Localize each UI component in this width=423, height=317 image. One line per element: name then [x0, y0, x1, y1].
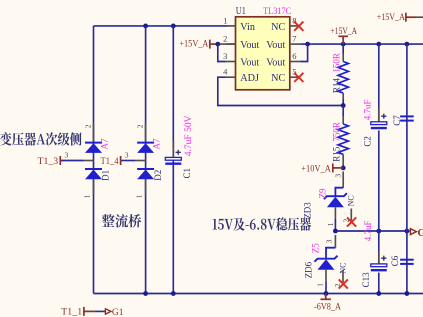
svg-text:3: 3	[325, 239, 334, 243]
wire C1 vertical	[172, 26, 174, 294]
svg-text:Vout: Vout	[240, 57, 259, 68]
value 150R	[331, 53, 341, 73]
svg-text:3: 3	[223, 51, 227, 61]
wire C13 top	[378, 231, 380, 264]
zener ZD3 cathode jog	[335, 188, 343, 197]
power port +10V_A bar	[332, 163, 334, 172]
wire pin7 to +15V rail	[300, 43, 308, 45]
pin name NC U1	[271, 22, 285, 33]
junction dot R14 top	[341, 42, 346, 47]
pin 1 stub U1 left	[226, 25, 236, 27]
capacitor C1 top pin stub	[172, 141, 174, 157]
designator U1	[236, 6, 246, 17]
svg-text:C7: C7	[392, 115, 402, 126]
diode D1 pin 1 number	[83, 194, 92, 198]
pin stub branch2 mid pin3	[136, 160, 146, 162]
pin 4 stub U1 left	[226, 76, 236, 78]
diode D1 upper value A7	[100, 138, 110, 149]
diode D2 lower anode pin stub	[145, 179, 147, 194]
wire C2 bottom	[378, 131, 380, 232]
junction dot C1 bottom	[171, 291, 176, 296]
annotation rectifier bridge	[102, 214, 141, 228]
designator ZD3	[302, 202, 312, 219]
zener ZD6 NC pin	[342, 271, 344, 283]
svg-text:C6: C6	[390, 255, 400, 266]
no-connect X ZD6 pin2	[339, 279, 348, 288]
pin number 5 U1	[292, 67, 296, 77]
junction dot C13 bottom	[376, 291, 381, 296]
svg-text:T1_4: T1_4	[101, 157, 119, 167]
diode D2 upper value A7	[152, 138, 162, 149]
wire pin2 node to pin3	[218, 44, 226, 61]
pin name Vout U1	[266, 57, 285, 68]
power port -6V8_A stub	[325, 294, 327, 300]
pin name Vout U1	[240, 40, 259, 51]
pin name ADJ U1	[240, 73, 259, 84]
port T1_1 bar	[83, 307, 85, 316]
zener ZD6 symbol	[315, 256, 338, 270]
pin 6 stub U1 right	[290, 61, 300, 63]
svg-text:1: 1	[315, 283, 324, 287]
net label -6V8_A	[314, 302, 341, 312]
svg-text:3: 3	[334, 174, 343, 178]
svg-text:4: 4	[223, 67, 228, 77]
svg-text:4.7uF: 4.7uF	[362, 99, 372, 120]
wire C7	[406, 44, 408, 231]
value 4.7uF of C2	[362, 99, 372, 120]
wire +10V_A port	[333, 167, 343, 169]
zener ZD3 NC label	[346, 195, 355, 206]
zener ZD3 cathode pin	[342, 172, 344, 188]
svg-text:ZD6: ZD6	[304, 261, 314, 278]
pin name Vout U1	[240, 57, 259, 68]
wire ZD6 anode to bottom rail	[325, 282, 327, 294]
svg-text:1: 1	[326, 222, 335, 226]
diode D1 upper (A7) pin2 stub	[93, 124, 95, 143]
svg-text:Z5: Z5	[310, 243, 320, 253]
svg-text:3: 3	[125, 151, 129, 160]
pin number 1 U1	[223, 15, 227, 25]
capacitor C7 plates	[400, 116, 414, 120]
resistor R15 pin bottom	[342, 154, 344, 168]
designator C13	[361, 272, 371, 288]
designator R14	[331, 78, 341, 94]
capacitor C6 plates	[400, 260, 414, 264]
annotation 15V and -6.8V regulator	[213, 217, 311, 230]
junction dot C2 top	[376, 42, 381, 47]
junction dot R14/R15/ADJ node	[341, 103, 346, 108]
value 4.7uF of C13	[363, 221, 373, 242]
svg-text:2: 2	[135, 124, 144, 128]
svg-text:U1: U1	[236, 6, 246, 17]
pin 2 stub U1 left	[226, 43, 236, 45]
wire ADJ pin4 to R14/R15 node	[218, 77, 343, 105]
capacitor C2 plates	[371, 122, 387, 128]
svg-text:A7: A7	[152, 138, 162, 149]
diode D1 lower anode pin stub	[93, 179, 95, 194]
pin number 3 at T1_4	[125, 151, 129, 160]
zener ZD6 pin1 number	[315, 283, 324, 287]
wire R14 bottom	[342, 100, 344, 106]
pin number 8 U1	[292, 15, 296, 25]
diode D2 lower cathode bar	[137, 169, 154, 179]
svg-text:G1: G1	[112, 308, 124, 317]
resistor R14 pin bottom	[342, 93, 344, 99]
svg-text:NC: NC	[271, 73, 285, 84]
wire +15V rail	[308, 43, 423, 45]
wire C6	[406, 231, 408, 294]
svg-text:4.7uF: 4.7uF	[363, 221, 373, 242]
net label T1_4	[101, 157, 119, 167]
diode D2 pin 1 number	[135, 194, 144, 198]
diode D2 upper pin 2 number	[135, 124, 144, 128]
designator C2	[363, 136, 373, 147]
power port +15V_A bar on rail	[338, 35, 348, 37]
no-connect X ZD3 pin2	[347, 217, 356, 226]
op-amp U1 body	[236, 17, 290, 90]
svg-text:D2: D2	[153, 170, 163, 181]
junction dot branch D2 top	[143, 24, 148, 29]
wire +15V_A to pin2	[210, 43, 236, 45]
junction dot C6 bottom	[405, 291, 410, 296]
svg-text:TL317C: TL317C	[263, 7, 291, 17]
value TL317C	[263, 7, 291, 17]
annotation transformer A secondary side	[0, 132, 82, 146]
net label +15V_A top right	[377, 13, 405, 23]
svg-text:1: 1	[135, 194, 144, 198]
zener ZD6 NC pin 2 number	[333, 283, 342, 287]
diode D2 upper pin2 stub	[145, 124, 147, 143]
diode D1 upper (A7)	[85, 143, 102, 153]
svg-text:G: G	[417, 227, 423, 239]
svg-text:C2: C2	[363, 136, 373, 147]
zener ZD6 NC label	[338, 262, 347, 273]
svg-text:Vout: Vout	[266, 57, 285, 68]
capacitor C13 plates	[371, 264, 387, 270]
diode D1 lower cathode bar	[85, 169, 102, 179]
designator C7	[392, 115, 402, 126]
wire C13 bottom	[378, 273, 380, 294]
svg-text:Vout: Vout	[240, 40, 259, 51]
svg-text:Z9: Z9	[317, 188, 327, 198]
pin stub branch1 mid pin3	[84, 160, 94, 162]
junction dot C1 top	[171, 24, 176, 29]
capacitor C1 plus sign	[176, 150, 181, 155]
zener ZD6 pin3 number	[325, 239, 334, 243]
value 750R	[331, 122, 341, 142]
svg-text:D1: D1	[101, 170, 111, 181]
junction dot +10V_A node	[341, 166, 346, 171]
svg-text:C1: C1	[182, 168, 192, 179]
svg-text:Vin: Vin	[240, 22, 255, 33]
junction dot C7 top	[405, 42, 410, 47]
junction dot ZD3/ZD6 node	[333, 229, 338, 234]
svg-text:+15V_A: +15V_A	[179, 39, 208, 49]
pin 7 stub U1 right	[290, 43, 300, 45]
diode D1 upper pin 2 number	[83, 124, 92, 128]
svg-text:1: 1	[83, 194, 92, 198]
wire R14 top	[342, 44, 344, 53]
svg-text:T1_3: T1_3	[38, 157, 59, 167]
zener ZD6 cathode jog	[326, 248, 335, 259]
capacitor C1 value 4.7uF 50V	[184, 115, 194, 156]
wire port T1_3 to branch1	[61, 160, 84, 162]
junction dot pin2 node	[215, 42, 220, 47]
capacitor C2 pin top segment	[378, 108, 380, 122]
wire port T1_4 to branch2	[121, 160, 135, 162]
wire rectifier branch 1 vertical	[93, 26, 95, 294]
pin number 6 U1	[292, 51, 296, 61]
pin number 3 at T1_3	[65, 151, 69, 160]
designator ZD6	[304, 261, 314, 278]
capacitor C13 plus	[381, 256, 386, 261]
pin stub +15V_A top right	[416, 16, 423, 18]
value Z5 of ZD6	[310, 243, 320, 253]
junction dot C13 top	[376, 229, 381, 234]
svg-text:C13: C13	[361, 272, 371, 288]
svg-text:NC: NC	[346, 195, 355, 206]
junction dot pin7 node	[305, 42, 310, 47]
pin 5 stub U1 right	[290, 76, 300, 78]
zener ZD3 NC pin 2 number	[341, 219, 350, 223]
zener ZD3 pin3 number	[334, 174, 343, 178]
capacitor C1 plates	[165, 157, 181, 163]
wire R15 top	[342, 106, 344, 117]
designator C1	[182, 168, 192, 179]
wire T1_1 to G1	[95, 310, 106, 312]
wire bottom -6.8V rail	[94, 293, 423, 295]
pin name Vin U1	[240, 22, 255, 33]
pin number 3 U1	[223, 51, 227, 61]
pin name Vout U1	[266, 40, 285, 51]
resistor R14	[338, 62, 348, 94]
wire rectifier branch 2 vertical	[145, 26, 147, 294]
value Z9 of ZD3	[317, 188, 327, 198]
zener ZD6 anode pin	[325, 270, 327, 282]
svg-text:4.7uF 50V: 4.7uF 50V	[184, 115, 194, 156]
zener ZD3 anode pin	[334, 207, 336, 219]
svg-text:750R: 750R	[331, 122, 341, 142]
svg-text:-6V8_A: -6V8_A	[314, 302, 341, 312]
resistor R15	[338, 124, 348, 154]
svg-text:ZD3: ZD3	[302, 202, 312, 219]
power port -6V8_A bar	[320, 298, 331, 300]
svg-text:2: 2	[223, 34, 227, 44]
sheet entry G1 triangle	[105, 309, 111, 314]
wire pin6 up to pin7 node	[300, 44, 308, 61]
pin number 7 U1	[292, 34, 296, 44]
pin number 2 U1	[223, 34, 227, 44]
no-connect X pin 8	[294, 22, 303, 31]
wire ground rail	[335, 230, 409, 232]
junction dot C6 top	[405, 229, 410, 234]
svg-text:+10V_A: +10V_A	[301, 164, 331, 174]
pin name NC U1	[271, 73, 285, 84]
designator D1	[101, 170, 111, 181]
designator C6	[390, 255, 400, 266]
svg-text:R15: R15	[331, 146, 341, 162]
zener ZD6 cathode pin	[334, 235, 336, 248]
svg-text:7: 7	[292, 34, 296, 44]
net label +15V_A at pin2	[179, 39, 208, 49]
svg-text:R14: R14	[331, 78, 341, 94]
svg-text:A7: A7	[100, 138, 110, 149]
power port +15V_A bar top right	[405, 13, 407, 22]
svg-text:+15V_A: +15V_A	[377, 13, 405, 23]
diode D2 upper (A7)	[137, 143, 154, 153]
wire C2 top	[378, 44, 380, 122]
net label T1_3	[38, 157, 59, 167]
svg-text:ADJ: ADJ	[240, 73, 259, 84]
power port +15V_A stub on rail	[342, 36, 344, 44]
net label +10V_A	[301, 164, 331, 174]
svg-text:NC: NC	[271, 22, 285, 33]
zener ZD3 pin1 number	[326, 222, 335, 226]
svg-text:+15V_A: +15V_A	[331, 27, 358, 37]
capacitor C2 plus	[381, 114, 386, 119]
sheet entry G label	[417, 227, 423, 239]
power port +15V_A bar at pin2	[209, 40, 211, 49]
port T1_3 bar	[59, 156, 61, 165]
zener ZD3 symbol	[324, 193, 347, 207]
resistor R15 pin top	[342, 116, 344, 124]
svg-text:T1_1: T1_1	[61, 308, 82, 317]
no-connect X pin 5	[294, 73, 303, 82]
zener ZD3 NC pin	[350, 209, 352, 221]
port T1_4 bar	[120, 156, 122, 165]
net label T1_1	[61, 308, 82, 317]
net label +15V_A on rail	[331, 27, 358, 37]
sheet entry G triangle	[410, 229, 416, 235]
pin 8 stub U1 right	[290, 25, 300, 27]
wire +15V_A top right	[406, 16, 417, 18]
pin 3 stub U1 left	[226, 61, 236, 63]
svg-text:150R: 150R	[331, 53, 341, 73]
junction dot branch D2 bottom	[143, 291, 148, 296]
svg-text:Vout: Vout	[266, 40, 285, 51]
sheet entry G1 label	[112, 308, 124, 317]
wire Vin top rail	[94, 25, 228, 27]
designator D2	[153, 170, 163, 181]
svg-text:6: 6	[292, 51, 296, 61]
wire ZD3 anode to ground rail	[334, 219, 336, 231]
pin number 4 U1	[223, 67, 228, 77]
designator R15	[331, 146, 341, 162]
capacitor C13 pin top segment	[378, 251, 380, 264]
svg-text:3: 3	[65, 151, 69, 160]
resistor R14 pin top	[342, 54, 344, 62]
wire T1_1 stub	[84, 310, 95, 312]
svg-text:1: 1	[223, 15, 227, 25]
svg-text:2: 2	[83, 124, 92, 128]
junction dot ZD6 bottom	[324, 291, 329, 296]
